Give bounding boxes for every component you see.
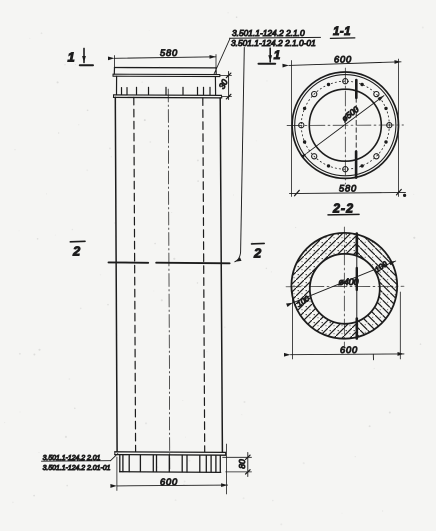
svg-text:1: 1 [68, 50, 75, 65]
svg-text:1-1: 1-1 [333, 26, 351, 38]
svg-text:ø400: ø400 [339, 277, 359, 287]
svg-text:600: 600 [340, 345, 358, 355]
svg-text:1: 1 [274, 48, 281, 62]
svg-text:600: 600 [334, 55, 352, 65]
svg-text:580: 580 [160, 48, 178, 58]
svg-text:80: 80 [237, 459, 247, 469]
svg-text:2: 2 [72, 244, 81, 259]
svg-text:2-2: 2-2 [332, 202, 354, 216]
svg-text:580: 580 [339, 184, 357, 194]
svg-text:3.501.1-124.2 2.01-01: 3.501.1-124.2 2.01-01 [43, 465, 111, 472]
svg-text:2: 2 [253, 246, 262, 261]
svg-text:30: 30 [217, 77, 230, 90]
svg-text:600: 600 [160, 477, 178, 487]
svg-text:3.501.1-124.2 2.1.0-01: 3.501.1-124.2 2.1.0-01 [231, 38, 316, 48]
svg-text:3.501.1-124.2 2.1.0: 3.501.1-124.2 2.1.0 [232, 28, 305, 38]
